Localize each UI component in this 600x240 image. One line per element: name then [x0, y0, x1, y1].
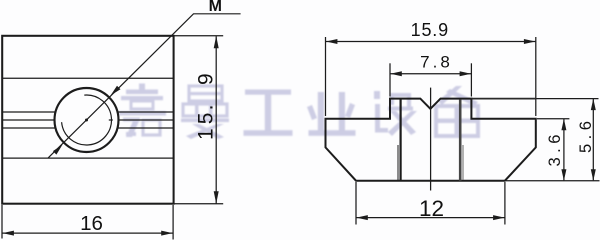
dim 7.8: extension left: [389, 63, 391, 96]
dim 12: dimension line: [356, 217, 504, 219]
hole line right bold: [459, 99, 462, 180]
arrow left: [326, 39, 338, 44]
svg-text:M: M: [209, 0, 222, 15]
extension shoulder right: [537, 118, 569, 120]
svg-text:5.6: 5.6: [577, 117, 595, 153]
svg-text:5: 5: [194, 113, 217, 125]
dim 12: extension right: [504, 182, 506, 225]
watermark 嘉: [119, 84, 166, 138]
hole bold circle: [55, 88, 119, 152]
slot line y120 right: [109, 119, 113, 121]
watermark 工: [244, 90, 293, 136]
dim 15.9 top: dimension line: [326, 41, 536, 43]
arrow right: [524, 39, 536, 44]
arrow up: [214, 36, 219, 49]
leader arrow upper: [111, 86, 121, 96]
arrow left: [390, 71, 402, 76]
svg-text:16: 16: [80, 212, 103, 235]
dim 16: extension left: [1, 205, 3, 239]
slot line y112 right: [117, 111, 173, 113]
center line: [430, 88, 432, 191]
slot line y128 left: [2, 127, 55, 129]
svg-text:9: 9: [194, 73, 217, 85]
dim 3.6: dimension line: [563, 119, 565, 180]
extension top edge right: [471, 98, 536, 100]
dim 5.6: dimension line: [592, 99, 594, 180]
svg-text:3.6: 3.6: [546, 130, 564, 166]
arrow down: [214, 191, 219, 204]
leader line M: [48, 14, 241, 158]
svg-text:12: 12: [419, 196, 444, 221]
arrow down: [561, 169, 566, 181]
svg-text:1: 1: [194, 128, 217, 140]
arrow up: [591, 99, 596, 111]
slot line y120 left: [2, 119, 55, 121]
watermark 备: [436, 86, 478, 136]
thread line right thin: [462, 145, 464, 180]
arrow right: [161, 231, 173, 236]
dim 12: extension left: [355, 182, 357, 225]
dim 15.9 left view: dimension line: [215, 36, 217, 203]
arrow up: [561, 119, 566, 131]
T-nut profile outline: [326, 99, 536, 181]
slot edge line lower: [2, 157, 173, 159]
dim 7.8: dimension line: [390, 73, 471, 75]
arrow left: [356, 215, 368, 220]
thread line left thin: [397, 145, 399, 180]
text 15.9 vertical: [194, 73, 217, 140]
slot line y128 right: [117, 127, 173, 129]
watermark 设: [374, 91, 417, 136]
svg-text:7.8: 7.8: [420, 53, 453, 72]
plate outline: [2, 36, 173, 204]
slot line y120 right outer: [118, 119, 173, 121]
arrow left: [2, 231, 14, 236]
dim 16: dimension line: [2, 232, 172, 234]
hole line left bold: [400, 99, 402, 180]
extension bottom edge right: [506, 180, 600, 182]
svg-text:.: .: [194, 105, 217, 111]
watermark 曼: [181, 86, 229, 139]
extension top edge far right: [537, 98, 599, 100]
dim 15.9 top: extension left: [325, 37, 327, 116]
slot edge line upper: [2, 77, 173, 79]
thread thin arc: [62, 95, 112, 145]
dim 15.9 left view: extension bottom: [174, 203, 224, 205]
svg-text:15.9: 15.9: [411, 20, 449, 40]
watermark 业: [307, 92, 356, 136]
arrow right: [493, 215, 505, 220]
arrow down: [591, 169, 596, 181]
leader arrow lower: [53, 145, 63, 155]
dim 16: extension right: [172, 205, 174, 240]
dim 15.9 left view: extension top: [174, 35, 224, 37]
center dot: [85, 119, 88, 122]
dim 15.9 top: extension right: [535, 37, 537, 116]
slot line y112 left: [2, 111, 55, 113]
dim 7.8: extension right: [470, 63, 472, 96]
arrow right: [460, 71, 472, 76]
